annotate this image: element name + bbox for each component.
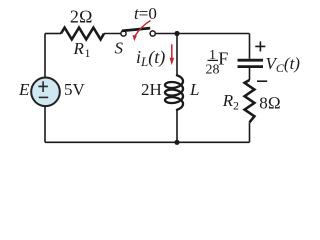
- switch S right contact: [150, 31, 155, 36]
- svg-text:5V: 5V: [64, 80, 86, 99]
- wire bottom rail: [45, 141, 250, 143]
- wire capacitor to R2: [249, 68, 251, 80]
- svg-text:L: L: [189, 80, 199, 99]
- label + (capacitor): [255, 41, 265, 51]
- resistor R1: [61, 28, 104, 40]
- svg-text:F: F: [218, 49, 228, 69]
- svg-text:iL(t): iL(t): [136, 47, 165, 69]
- svg-text:2: 2: [233, 98, 239, 112]
- source - symbol: [39, 96, 48, 98]
- svg-text:R: R: [222, 91, 234, 110]
- svg-text:VC(t): VC(t): [266, 54, 301, 75]
- node junction dot bottom: [174, 140, 179, 145]
- switch S left contact: [121, 31, 126, 36]
- svg-text:t=0: t=0: [134, 4, 157, 23]
- wire left rail top: [44, 34, 46, 78]
- capacitor top plate: [238, 59, 264, 62]
- wire resistor to switch: [104, 33, 121, 35]
- switch closing arrow (red): [135, 21, 150, 36]
- wire top-right corner down to capacitor: [249, 34, 251, 59]
- wire top-left to resistor: [45, 33, 61, 35]
- resistor R2: [245, 80, 255, 122]
- svg-text:R: R: [73, 39, 85, 58]
- svg-text:E: E: [18, 80, 30, 99]
- svg-text:8Ω: 8Ω: [259, 93, 281, 112]
- wire left rail bottom: [44, 106, 46, 142]
- wire R2 to bottom-right corner: [249, 122, 251, 142]
- svg-text:2H: 2H: [141, 80, 162, 99]
- source + symbol: [38, 81, 48, 92]
- switch blade: [122, 28, 150, 31]
- node junction dot top: [174, 31, 179, 36]
- capacitor bottom plate: [238, 65, 264, 68]
- voltage source E circle: [31, 78, 60, 107]
- svg-text:S: S: [115, 39, 124, 58]
- iL current arrow (red): [171, 44, 173, 59]
- wire switch to top-right corner: [155, 33, 249, 35]
- svg-text:1: 1: [85, 46, 91, 60]
- label - (capacitor): [257, 80, 267, 82]
- svg-text:2Ω: 2Ω: [70, 6, 93, 26]
- wire inductor to bottom dot: [176, 109, 178, 142]
- wire top dot to inductor: [176, 34, 178, 77]
- inductor L coil: [165, 75, 183, 110]
